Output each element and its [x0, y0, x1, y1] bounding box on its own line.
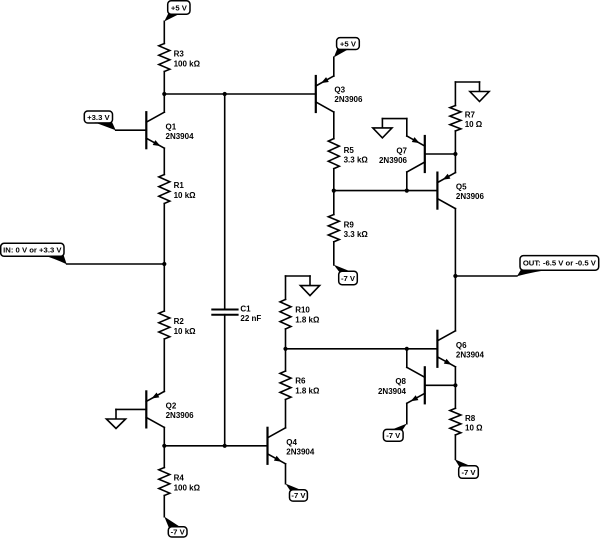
svg-text:1.8 kΩ: 1.8 kΩ: [295, 315, 320, 324]
svg-text:+5 V: +5 V: [340, 39, 357, 48]
svg-text:Q7: Q7: [396, 146, 407, 155]
svg-text:-7 V: -7 V: [171, 528, 186, 537]
svg-text:+5 V: +5 V: [171, 3, 188, 12]
svg-text:2N3906: 2N3906: [379, 156, 408, 165]
svg-text:10 Ω: 10 Ω: [465, 423, 483, 432]
svg-text:Q8: Q8: [395, 377, 406, 386]
svg-text:R3: R3: [174, 50, 185, 59]
svg-text:R8: R8: [465, 414, 476, 423]
svg-text:22 nF: 22 nF: [240, 314, 261, 323]
svg-text:3.3 kΩ: 3.3 kΩ: [344, 155, 369, 164]
svg-text:R5: R5: [344, 146, 355, 155]
svg-text:100 kΩ: 100 kΩ: [174, 483, 201, 492]
svg-text:2N3906: 2N3906: [334, 95, 363, 104]
svg-text:-7 V: -7 V: [291, 491, 306, 500]
svg-text:+3.3 V: +3.3 V: [87, 113, 110, 122]
svg-text:OUT: -6.5 V or -0.5 V: OUT: -6.5 V or -0.5 V: [523, 259, 597, 268]
svg-text:R9: R9: [344, 220, 355, 229]
svg-text:C1: C1: [240, 304, 251, 313]
svg-text:2N3904: 2N3904: [456, 351, 485, 360]
svg-text:Q1: Q1: [166, 123, 177, 132]
svg-text:2N3906: 2N3906: [166, 411, 195, 420]
svg-text:R6: R6: [295, 377, 306, 386]
svg-text:1.8 kΩ: 1.8 kΩ: [295, 386, 320, 395]
svg-text:-7 V: -7 V: [341, 274, 356, 283]
svg-text:100 kΩ: 100 kΩ: [174, 59, 201, 68]
svg-text:10 Ω: 10 Ω: [465, 120, 483, 129]
svg-text:2N3906: 2N3906: [456, 192, 485, 201]
svg-text:10 kΩ: 10 kΩ: [174, 327, 197, 336]
svg-text:Q4: Q4: [286, 438, 297, 447]
svg-text:-7 V: -7 V: [461, 468, 476, 477]
svg-text:Q3: Q3: [334, 85, 345, 94]
svg-text:Q5: Q5: [456, 183, 467, 192]
svg-text:Q6: Q6: [456, 341, 467, 350]
svg-text:IN: 0 V or +3.3 V: IN: 0 V or +3.3 V: [3, 246, 62, 255]
svg-text:R7: R7: [465, 110, 476, 119]
svg-text:2N3904: 2N3904: [378, 387, 407, 396]
svg-text:2N3904: 2N3904: [166, 132, 195, 141]
svg-text:3.3 kΩ: 3.3 kΩ: [344, 230, 369, 239]
svg-text:Q2: Q2: [166, 401, 177, 410]
svg-text:R2: R2: [174, 317, 185, 326]
svg-text:-7 V: -7 V: [386, 431, 401, 440]
svg-text:R10: R10: [295, 306, 310, 315]
svg-text:10 kΩ: 10 kΩ: [174, 191, 197, 200]
svg-text:R1: R1: [174, 181, 185, 190]
svg-text:R4: R4: [174, 474, 185, 483]
svg-text:2N3904: 2N3904: [286, 447, 315, 456]
